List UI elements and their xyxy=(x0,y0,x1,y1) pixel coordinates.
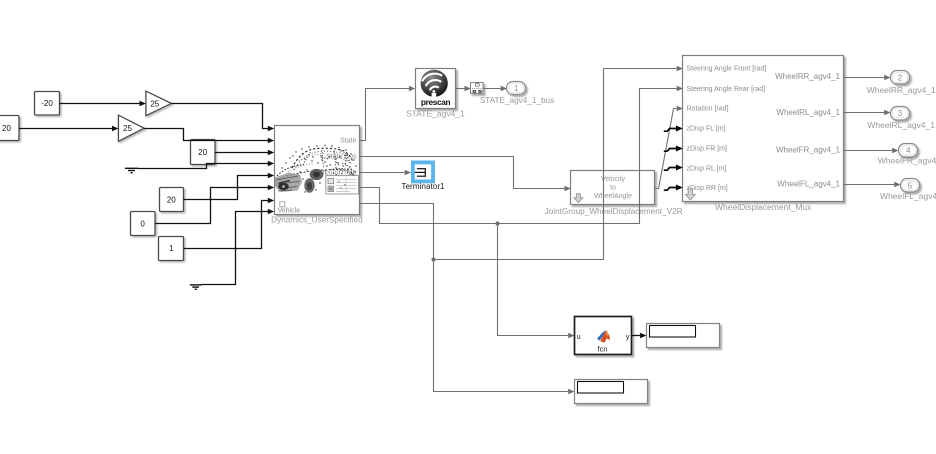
wire Mux out to outport5 xyxy=(844,184,895,186)
wire Mux out to outport4 xyxy=(844,150,893,152)
svg-text:25: 25 xyxy=(123,124,132,133)
subsystem WheelDisplacement_Mux xyxy=(683,56,844,202)
svg-text:WheelFL_agv4_: WheelFL_agv4_ xyxy=(880,191,936,201)
svg-text:WheelFR_agv4_1: WheelFR_agv4_1 xyxy=(776,145,841,154)
svg-text:STATE_agv4_1_bus: STATE_agv4_1_bus xyxy=(480,96,554,105)
svg-text:WheelFR_agv4_: WheelFR_agv4_ xyxy=(878,156,936,166)
svg-text:5: 5 xyxy=(908,181,913,190)
display block 2 xyxy=(575,380,648,404)
wire STATE to conversion xyxy=(456,88,465,90)
outport 2 oval xyxy=(891,71,910,85)
outport 1 oval xyxy=(507,82,526,95)
svg-text:Steering Angle Rear [rad]: Steering Angle Rear [rad] xyxy=(687,86,766,93)
car sketch inside Dynamics xyxy=(275,145,359,194)
svg-text:prescan: prescan xyxy=(421,97,451,107)
wire constant0 to Dynamics in6 xyxy=(155,188,268,224)
svg-text:WheelAngle: WheelAngle xyxy=(594,193,632,200)
wire Mux out to outport2 xyxy=(844,77,885,79)
svg-text:zDisp FR [m]: zDisp FR [m] xyxy=(687,146,728,153)
svg-text:WheelFL_agv4_1: WheelFL_agv4_1 xyxy=(777,180,840,189)
svg-text:WheelDisplacement_Mux: WheelDisplacement_Mux xyxy=(715,202,812,212)
constant 1 xyxy=(159,237,184,261)
constant 0 xyxy=(131,212,156,236)
outport 4 oval xyxy=(899,144,918,158)
wire gain1 to Dynamics in1 xyxy=(171,104,268,129)
wire 20 to gain2 xyxy=(19,128,112,130)
wire stub zDisp RR xyxy=(664,188,677,191)
wire conversion to outport1 xyxy=(483,88,501,90)
wire ground1 to Dynamics in4 xyxy=(138,164,268,169)
svg-text:fcn: fcn xyxy=(597,345,607,354)
wire stub zDisp RL xyxy=(664,168,677,171)
signal conversion block xyxy=(471,83,484,94)
wire State Bus to JointGroup xyxy=(360,157,565,189)
svg-text:WheelRL_agv4_1: WheelRL_agv4_1 xyxy=(867,120,935,130)
wire stub zDisp FL xyxy=(664,129,677,132)
subsystem JointGroup_WheelDisplacement_V2R xyxy=(571,171,655,205)
ground symbol 2 xyxy=(190,285,202,289)
wire gain2 to Dynamics in2 xyxy=(144,129,268,141)
wire constant20low to Dynamics in5 xyxy=(183,176,268,200)
wire State to STATE_agv4_1 xyxy=(360,89,410,141)
wire constant1 to Dynamics in7 xyxy=(184,201,268,249)
svg-text:y: y xyxy=(626,332,630,341)
svg-text:20: 20 xyxy=(198,148,207,157)
svg-text:-20: -20 xyxy=(41,99,53,108)
display block 1 xyxy=(647,324,720,348)
constant 20 (lower) xyxy=(160,188,184,212)
svg-text:zDisp FL [m]: zDisp FL [m] xyxy=(687,126,726,133)
subsystem Dynamics_UserSpecified xyxy=(275,126,360,215)
wire out4 to Mux Steering Angle Rear (and fcn) xyxy=(360,89,677,224)
svg-text:25: 25 xyxy=(150,99,159,108)
wire -20 to gain1 xyxy=(60,103,140,105)
svg-text:WheelRL_agv4_1: WheelRL_agv4_1 xyxy=(776,108,840,117)
svg-text:Dynamics_UserSpecified: Dynamics_UserSpecified xyxy=(271,216,363,225)
ground symbol 1 xyxy=(125,168,138,172)
svg-text:State: State xyxy=(340,138,356,145)
constant -20 xyxy=(35,92,60,116)
svg-text:WheelRR_agv4_1: WheelRR_agv4_1 xyxy=(867,85,936,95)
svg-text:JointGroup_WheelDisplacement_V: JointGroup_WheelDisplacement_V2R xyxy=(545,207,683,216)
svg-text:0: 0 xyxy=(140,219,145,228)
svg-text:Rotation [rad]: Rotation [rad] xyxy=(687,106,729,113)
constant 20 (left edge) xyxy=(0,116,19,141)
svg-text:STATE_agv4_1: STATE_agv4_1 xyxy=(406,108,465,118)
svg-text:Vehicle: Vehicle xyxy=(278,208,301,215)
svg-text:3: 3 xyxy=(898,109,903,118)
MATLAB function block fcn xyxy=(575,317,632,355)
wire constant20mid to Dynamics in3 xyxy=(215,152,268,154)
svg-text:4: 4 xyxy=(906,146,911,155)
svg-text:20: 20 xyxy=(167,195,176,204)
wire Mux out to outport3 xyxy=(844,112,885,114)
svg-text:Velocity: Velocity xyxy=(601,176,626,183)
wire fcn y to display1 xyxy=(632,335,641,337)
svg-text:zDisp RL [m]: zDisp RL [m] xyxy=(687,165,727,172)
gain 25 (top) xyxy=(146,91,171,116)
terminator Terminator1 (selected) xyxy=(411,161,435,184)
svg-text:Terminator1: Terminator1 xyxy=(401,182,445,191)
svg-text:u: u xyxy=(577,332,581,341)
svg-text:2: 2 xyxy=(898,73,903,82)
constant 20 (mid) xyxy=(191,140,216,165)
svg-text:1: 1 xyxy=(514,84,519,93)
wire out5 to Mux Steering Angle Front (and display2) xyxy=(360,69,677,260)
outport 3 oval xyxy=(891,107,910,121)
wire out3 to Terminator1 xyxy=(360,172,405,174)
svg-text:1: 1 xyxy=(169,244,174,253)
svg-text:to: to xyxy=(610,185,616,192)
wire ground2 to Dynamics in8 xyxy=(201,212,268,285)
wire junction to fcn u xyxy=(498,224,569,336)
node junction fcn branch xyxy=(495,221,499,225)
svg-text:20: 20 xyxy=(2,124,11,133)
wire junction to display2 xyxy=(434,260,569,392)
wire JointGroup out diagonal to Rotation xyxy=(655,109,678,189)
svg-text:Steering Angle Front [rad]: Steering Angle Front [rad] xyxy=(687,66,767,73)
node junction display2 branch xyxy=(431,257,435,261)
outport 5 oval xyxy=(901,179,920,193)
wire stub zDisp FR xyxy=(664,149,677,152)
gain 25 (lower) xyxy=(118,115,144,141)
svg-text:WheelRR_agv4_1: WheelRR_agv4_1 xyxy=(775,72,840,81)
block STATE_agv4_1 (prescan) xyxy=(416,69,456,109)
